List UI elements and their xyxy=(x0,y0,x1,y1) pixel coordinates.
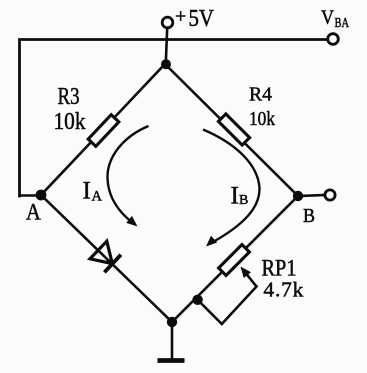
svg-text:I: I xyxy=(83,178,91,205)
arrow IB current xyxy=(203,130,260,247)
wire +5V stem xyxy=(166,28,167,63)
arrow IA current xyxy=(107,126,148,227)
svg-text:BA: BA xyxy=(335,16,350,31)
potentiometer RP1 body xyxy=(219,245,250,276)
svg-text:B: B xyxy=(239,193,248,208)
svg-text:A: A xyxy=(26,200,41,225)
diode D cathode bar xyxy=(104,255,121,273)
svg-text:A: A xyxy=(92,189,103,205)
svg-text:V: V xyxy=(321,6,334,28)
node wiper junction dot xyxy=(192,295,202,305)
svg-text:4.7k: 4.7k xyxy=(263,277,303,301)
wire bridge arm A-G xyxy=(41,195,172,322)
wire bridge arm T-A xyxy=(41,64,165,195)
node G junction dot xyxy=(167,317,177,327)
svg-text:B: B xyxy=(303,205,315,227)
wire bridge arm T-B xyxy=(165,64,298,196)
node A junction dot xyxy=(36,190,47,201)
svg-text:10k: 10k xyxy=(54,108,87,135)
terminal B-right xyxy=(325,190,335,200)
svg-text:R3: R3 xyxy=(58,84,80,110)
svg-text:5V: 5V xyxy=(189,6,215,32)
svg-text:R4: R4 xyxy=(249,84,272,106)
ground xyxy=(158,358,185,363)
svg-text:10k: 10k xyxy=(249,109,275,130)
diode D (sensor) triangle xyxy=(90,241,112,263)
terminal +5V xyxy=(162,17,173,28)
wire bridge arm B-G xyxy=(172,196,298,322)
wire stub into node A xyxy=(20,194,42,197)
wire stub B to terminal xyxy=(298,195,325,196)
wire ground stem xyxy=(171,322,174,358)
potentiometer RP1 wiper arrow xyxy=(241,267,257,287)
terminal VBA xyxy=(328,34,339,45)
wire top horizontal A-to-VBA xyxy=(20,40,327,197)
resistor R3 xyxy=(88,115,119,147)
svg-text:+: + xyxy=(175,5,186,27)
resistor R4 xyxy=(218,114,249,145)
node T junction dot xyxy=(161,59,171,69)
node B junction dot xyxy=(293,191,303,201)
wire RP1 wiper loop xyxy=(198,287,257,325)
svg-text:I: I xyxy=(231,182,239,209)
